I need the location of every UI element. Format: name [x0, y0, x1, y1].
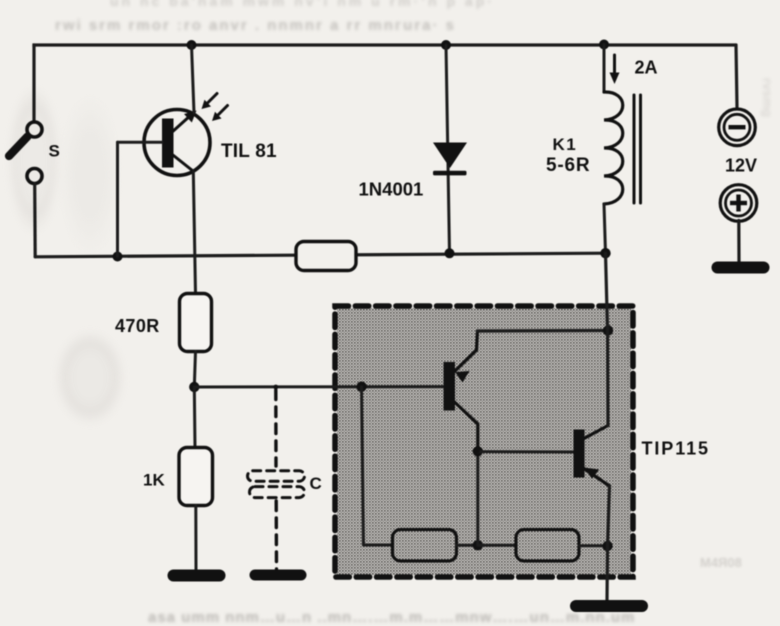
- node junction Q1 emitter / Q2 base: [473, 446, 483, 456]
- capacitor C plate 1: [248, 471, 305, 481]
- wire switch top: [32, 45, 35, 121]
- ground (capacitor): [250, 570, 307, 581]
- wire relay bottom: [604, 204, 606, 253]
- relay core line 2: [639, 95, 642, 203]
- TIL81 light arrow 2: [212, 106, 228, 122]
- node junction emitter bottom: [602, 541, 612, 551]
- wire R1 to node: [457, 544, 478, 547]
- switch S top contact: [27, 122, 42, 137]
- node junction bottom rail / base line: [113, 252, 123, 262]
- node junction top internal: [603, 325, 613, 335]
- diode 1N4001 wire vertical: [446, 45, 450, 253]
- node junction top rail / TIL81 collector: [187, 40, 197, 50]
- transistor Q2 base bar: [574, 430, 585, 478]
- wire battery feed (right drop): [736, 45, 737, 107]
- svg-text:12V: 12V: [725, 156, 757, 176]
- wire battery to ground: [737, 221, 740, 263]
- wire TIL81 base vertical: [116, 142, 119, 256]
- ground (TIP115 emitter): [570, 600, 648, 612]
- wire main vertical (collector): [606, 253, 609, 425]
- transistor Q2 upper lead: [584, 426, 608, 439]
- wire 1K to ground: [194, 506, 197, 571]
- svg-text:1N4001: 1N4001: [359, 179, 424, 200]
- node capacitor tap: [273, 385, 278, 390]
- resistor 470R: [180, 294, 212, 352]
- svg-text:C: C: [310, 474, 322, 493]
- ground (1K): [168, 570, 226, 582]
- node junction top rail / diode: [441, 40, 451, 50]
- wire TIL81 collector vertical: [192, 45, 195, 113]
- wire internal top line: [478, 329, 609, 333]
- svg-text:TIL 81: TIL 81: [221, 141, 277, 162]
- battery positive terminal: [720, 185, 757, 222]
- TIL81 light arrow 1: [202, 94, 218, 110]
- wire top rail: [34, 45, 736, 47]
- ground (battery): [712, 262, 770, 274]
- wire bottom rail: [35, 253, 605, 257]
- node junction bottom rail / diode: [445, 248, 455, 258]
- transistor Q2 lower lead with arrow: [584, 468, 610, 487]
- wire node to 1K: [193, 387, 197, 448]
- relay K1 coil: [604, 92, 623, 204]
- node junction 470R / 1K / base feed: [189, 382, 199, 392]
- node junction top rail / relay: [599, 40, 609, 50]
- resistor series (unlabeled, bottom rail): [296, 242, 356, 271]
- internal resistor R2: [516, 530, 579, 562]
- wire emitter junction vertical: [476, 451, 479, 545]
- node junction bottom rail / relay / TIP collector: [600, 248, 610, 258]
- TIP115 shaded package box: [335, 306, 633, 577]
- transistor Q1 base bar: [444, 362, 456, 411]
- battery negative terminal: [719, 109, 756, 146]
- internal resistor R1: [393, 530, 457, 562]
- transistor Q1 upper lead with arrow: [454, 331, 478, 383]
- wire TIL81 emitter vertical: [193, 171, 195, 294]
- transistor Q1 lower lead: [454, 402, 478, 452]
- wire relay top: [603, 45, 606, 93]
- svg-text:470R: 470R: [115, 316, 160, 336]
- switch S bottom contact: [27, 169, 42, 184]
- svg-text:TIP115: TIP115: [642, 439, 710, 459]
- capacitor C plate 2: [250, 487, 305, 498]
- wire internal bottom left: [364, 544, 393, 547]
- TIL81 collector lead with arrowhead: [171, 111, 197, 134]
- switch S lever: [9, 137, 28, 157]
- wire capacitor dashed top: [274, 390, 278, 466]
- relay core line 1: [633, 95, 636, 203]
- wire internal left vertical: [362, 387, 364, 545]
- wire Q1 to Q2 base: [478, 450, 574, 453]
- wire 470R to node: [194, 352, 195, 388]
- resistor 1K: [179, 448, 213, 506]
- svg-text:K1: K1: [553, 135, 578, 154]
- phototransistor TIL81 body circle: [144, 110, 210, 176]
- phototransistor TIL81 base bar: [162, 119, 174, 168]
- wire capacitor dashed bottom: [275, 501, 279, 570]
- svg-text:5-6R: 5-6R: [546, 155, 590, 176]
- node junction base feed inside box: [356, 382, 366, 392]
- diode 1N4001 triangle: [433, 143, 467, 169]
- svg-text:2A: 2A: [635, 58, 658, 78]
- wire R2 to emitter node: [579, 544, 608, 547]
- svg-text:S: S: [49, 142, 60, 161]
- wire node to R2: [478, 544, 516, 547]
- wire switch bottom: [33, 184, 37, 257]
- relay current arrow: [610, 55, 620, 84]
- node junction bottom internal: [473, 540, 483, 550]
- TIL81 emitter lead: [171, 154, 193, 172]
- svg-text:1K: 1K: [143, 471, 165, 490]
- wire TIL81 base lead: [118, 141, 163, 144]
- wire Q2 emitter vertical: [607, 486, 610, 601]
- diode 1N4001 cathode bar: [433, 171, 467, 176]
- wire base feed to TIP115: [194, 385, 443, 388]
